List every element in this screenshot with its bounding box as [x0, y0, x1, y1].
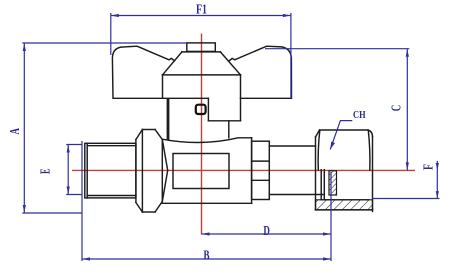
svg-text:B: B	[204, 249, 210, 264]
svg-text:A: A	[8, 127, 23, 134]
svg-text:C: C	[390, 105, 405, 112]
svg-text:F1: F1	[196, 3, 207, 18]
svg-text:CH: CH	[353, 110, 366, 121]
svg-text:E: E	[39, 168, 54, 174]
svg-text:F: F	[422, 164, 437, 170]
svg-text:D: D	[263, 224, 270, 239]
